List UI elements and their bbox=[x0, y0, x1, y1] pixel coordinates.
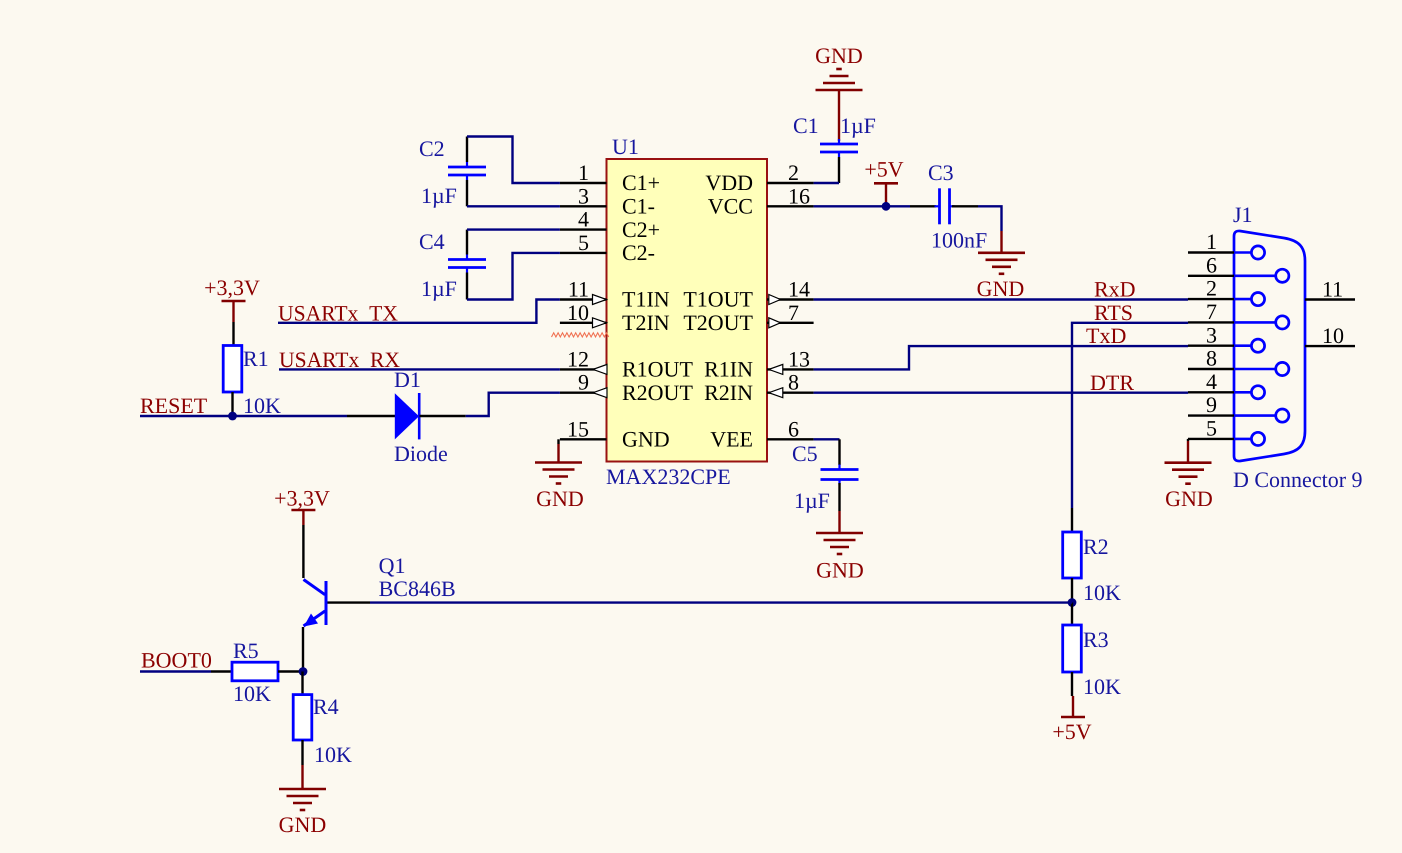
junction VCC/+5V bbox=[882, 202, 891, 211]
svg-text:10K: 10K bbox=[243, 393, 281, 418]
svg-text:DTR: DTR bbox=[1090, 370, 1134, 395]
svg-text:GND: GND bbox=[816, 558, 864, 583]
svg-text:4: 4 bbox=[578, 207, 589, 232]
svg-text:1µF: 1µF bbox=[840, 113, 876, 138]
svg-text:GND: GND bbox=[536, 486, 584, 511]
wire RxD net: U1 pin 14 to J1 pin 2 bbox=[814, 298, 1188, 300]
svg-text:R3: R3 bbox=[1083, 627, 1109, 652]
U1 pin 8 (R2IN) lead bbox=[767, 388, 814, 398]
J1 pin 10 lead bbox=[1305, 345, 1355, 347]
svg-text:D Connector 9: D Connector 9 bbox=[1233, 467, 1363, 492]
svg-text:1µF: 1µF bbox=[421, 276, 457, 301]
IC U1 MAX232CPE body bbox=[607, 159, 768, 462]
compile-error squiggle under pin 10 bbox=[552, 333, 609, 337]
J1 pin 5 lead and contact bbox=[1188, 432, 1265, 445]
J1 pin 1 lead and contact bbox=[1188, 246, 1265, 259]
svg-text:RESET: RESET bbox=[140, 393, 208, 418]
svg-text:12: 12 bbox=[567, 346, 589, 371]
svg-text:3: 3 bbox=[578, 183, 589, 208]
connector J1 body (D Connector 9) bbox=[1234, 231, 1305, 461]
U1 pin 7 (T2OUT) lead bbox=[767, 318, 814, 328]
svg-text:3: 3 bbox=[1206, 322, 1217, 347]
svg-text:13: 13 bbox=[788, 346, 810, 371]
J1 pin 2 lead and contact bbox=[1188, 293, 1265, 306]
svg-text:100nF: 100nF bbox=[931, 228, 987, 253]
wire BOOT0 to R5 bbox=[211, 670, 232, 672]
resistor R1 bbox=[223, 346, 242, 393]
capacitor C4 bbox=[448, 255, 486, 273]
J1 pin 3 lead and contact bbox=[1188, 339, 1265, 352]
U1 pin 13 (R1IN) lead bbox=[767, 364, 814, 374]
svg-text:6: 6 bbox=[788, 416, 799, 441]
U1 pin 14 (T1OUT) lead bbox=[767, 295, 814, 305]
wire C2 bottom to U1 pin 3 bbox=[467, 180, 560, 206]
wire RTS net: J1 pin 7 to R2 bbox=[1072, 323, 1188, 508]
svg-text:10: 10 bbox=[1322, 323, 1344, 348]
svg-text:1: 1 bbox=[1206, 229, 1217, 254]
svg-text:10K: 10K bbox=[1083, 580, 1121, 605]
svg-text:9: 9 bbox=[578, 370, 589, 395]
svg-text:R4: R4 bbox=[313, 694, 339, 719]
wire USARTx_RX to U1 pin 12 bbox=[279, 368, 560, 370]
U1 pin 4 (C2+) lead bbox=[560, 228, 607, 230]
svg-text:10: 10 bbox=[567, 300, 589, 325]
svg-text:1µF: 1µF bbox=[794, 488, 830, 513]
wire R4 bottom to GND bbox=[301, 740, 303, 765]
U1 pin 15 (GND) lead bbox=[560, 438, 607, 440]
svg-text:C4: C4 bbox=[419, 229, 445, 254]
svg-text:5: 5 bbox=[1206, 416, 1217, 441]
wire C3 right to GND bbox=[952, 206, 1002, 231]
ground symbol at J1 bbox=[1165, 441, 1212, 484]
svg-text:C1: C1 bbox=[793, 113, 819, 138]
svg-text:T1IN: T1IN bbox=[622, 287, 670, 312]
ground symbol at C5 bbox=[816, 511, 863, 554]
svg-text:10K: 10K bbox=[1083, 674, 1121, 699]
J1 pin 9 lead and contact bbox=[1188, 409, 1289, 422]
svg-text:VDD: VDD bbox=[705, 170, 753, 195]
svg-text:MAX232CPE: MAX232CPE bbox=[606, 464, 731, 489]
wire BOOT0 bbox=[140, 670, 211, 672]
U1 pin 11 (T1IN) lead bbox=[560, 295, 607, 305]
svg-text:2: 2 bbox=[1206, 276, 1217, 301]
wire junction to R3 top bbox=[1071, 603, 1073, 626]
wire R2 bottom to junction bbox=[1071, 578, 1073, 603]
svg-text:C2: C2 bbox=[419, 136, 445, 161]
capacitor C3 bbox=[935, 188, 955, 224]
svg-text:T1OUT: T1OUT bbox=[683, 287, 753, 312]
svg-text:C3: C3 bbox=[928, 160, 954, 185]
transistor Q1 (BC846B) symbol bbox=[304, 580, 327, 627]
wire C4 bottom to U1 pin 5 bbox=[467, 253, 560, 300]
svg-text:8: 8 bbox=[788, 370, 799, 395]
svg-text:R2IN: R2IN bbox=[704, 380, 753, 405]
J1 pin 6 lead and contact bbox=[1188, 269, 1289, 282]
wire DTR net: U1 pin 8 to J1 pin 4 bbox=[814, 392, 1188, 394]
svg-text:7: 7 bbox=[788, 300, 799, 325]
power port +3,3V above R1 bbox=[204, 275, 260, 322]
wire D1 cathode to U1 pin 9 R2OUT bbox=[420, 393, 560, 416]
wire U1 pin 6 to C5 bbox=[814, 439, 840, 465]
J1 pin 8 lead and contact bbox=[1188, 362, 1289, 375]
wire junction to R4 bbox=[301, 672, 303, 695]
svg-text:7: 7 bbox=[1206, 299, 1217, 324]
wire Q1 emitter to BOOT0 node bbox=[302, 627, 304, 672]
svg-text:5: 5 bbox=[578, 230, 589, 255]
U1 pin 3 (C1-) lead bbox=[560, 205, 607, 207]
svg-text:9: 9 bbox=[1206, 392, 1217, 417]
svg-text:GND: GND bbox=[279, 812, 327, 837]
svg-text:R1: R1 bbox=[243, 346, 269, 371]
svg-text:C5: C5 bbox=[792, 441, 818, 466]
J1 pin 11 lead bbox=[1305, 298, 1355, 300]
U1 pin 1 (C1+) lead bbox=[560, 182, 607, 184]
svg-text:+3,3V: +3,3V bbox=[204, 275, 260, 300]
svg-text:C2-: C2- bbox=[622, 240, 655, 265]
svg-text:T2OUT: T2OUT bbox=[683, 310, 753, 335]
wire R5 to junction bbox=[278, 670, 303, 672]
svg-text:C1+: C1+ bbox=[622, 170, 660, 195]
svg-text:T2IN: T2IN bbox=[622, 310, 670, 335]
diode D1 bbox=[395, 393, 419, 439]
ground symbol at R4 bbox=[279, 765, 326, 810]
svg-text:10K: 10K bbox=[314, 742, 352, 767]
U1 pin 12 (R1OUT) lead bbox=[560, 364, 607, 374]
power port +3,3V above Q1 bbox=[274, 486, 330, 526]
U1 pin 9 (R2OUT) lead bbox=[560, 388, 607, 398]
wire GND to C1 top bbox=[838, 90, 840, 141]
junction R2/R3/base bbox=[1068, 598, 1077, 607]
svg-text:GND: GND bbox=[815, 43, 863, 68]
svg-text:8: 8 bbox=[1206, 346, 1217, 371]
wire C4 top to U1 pin 4 bbox=[467, 230, 560, 255]
svg-text:TxD: TxD bbox=[1086, 323, 1126, 348]
power port GND above C1 bbox=[815, 43, 863, 90]
svg-text:+5V: +5V bbox=[1052, 719, 1091, 744]
capacitor C5 bbox=[821, 465, 859, 485]
resistor R3 bbox=[1063, 625, 1082, 672]
svg-text:1µF: 1µF bbox=[421, 183, 457, 208]
svg-text:R2: R2 bbox=[1083, 534, 1109, 559]
svg-text:R1IN: R1IN bbox=[704, 357, 753, 382]
svg-text:16: 16 bbox=[788, 183, 810, 208]
wire C2 top to U1 pin 1 bbox=[467, 137, 560, 184]
power port +5V at VCC bbox=[864, 157, 903, 207]
svg-text:11: 11 bbox=[568, 277, 589, 302]
junction Q1 emitter / R5 / R4 bbox=[299, 667, 308, 676]
svg-text:14: 14 bbox=[788, 277, 810, 302]
capacitor C2 bbox=[448, 162, 486, 180]
svg-text:R1OUT: R1OUT bbox=[622, 357, 693, 382]
resistor R2 bbox=[1063, 532, 1082, 578]
svg-text:C1-: C1- bbox=[622, 194, 655, 219]
svg-text:RTS: RTS bbox=[1094, 300, 1133, 325]
wire U1 pin 16 to +5V junction and C3 bbox=[814, 205, 936, 207]
ground symbol at C3 bbox=[978, 231, 1025, 274]
wire J1 pin 5 to GND bbox=[1187, 439, 1189, 441]
resistor R4 bbox=[293, 695, 312, 740]
wire RTS to R2 top bbox=[1071, 508, 1073, 532]
U1 pin 6 (VEE) lead bbox=[767, 438, 814, 440]
svg-text:J1: J1 bbox=[1233, 202, 1253, 227]
wire +3,3V to Q1 collector bbox=[302, 525, 304, 578]
U1 pin 16 (VCC) lead bbox=[767, 205, 814, 207]
svg-text:R5: R5 bbox=[233, 638, 259, 663]
svg-text:6: 6 bbox=[1206, 252, 1217, 277]
wire C5 bottom to GND bbox=[838, 483, 840, 511]
wire R3 bottom to +5V bbox=[1071, 672, 1073, 696]
wire R1 bottom to RESET net bbox=[231, 392, 233, 416]
svg-text:R2OUT: R2OUT bbox=[622, 380, 693, 405]
wire +3,3V to R1 bbox=[232, 322, 234, 346]
svg-text:Diode: Diode bbox=[394, 441, 448, 466]
ground symbol at U1 pin 15 bbox=[535, 444, 582, 484]
J1 pin 4 lead and contact bbox=[1188, 386, 1265, 399]
J1 pin 7 lead and contact bbox=[1188, 316, 1289, 329]
svg-text:10K: 10K bbox=[233, 681, 271, 706]
capacitor C1 bbox=[820, 139, 858, 157]
wire RESET to diode D1 anode bbox=[347, 415, 395, 417]
svg-text:GND: GND bbox=[977, 276, 1025, 301]
svg-text:4: 4 bbox=[1206, 369, 1217, 394]
svg-text:BC846B: BC846B bbox=[379, 576, 456, 601]
svg-text:RxD: RxD bbox=[1094, 277, 1136, 302]
svg-text:VCC: VCC bbox=[708, 194, 753, 219]
svg-text:GND: GND bbox=[622, 427, 670, 452]
wire USARTx_TX to U1 pin 11 bbox=[278, 300, 560, 323]
resistor R5 bbox=[232, 662, 278, 681]
wire C1 bottom to U1 pin 2 bbox=[814, 157, 839, 183]
svg-text:1: 1 bbox=[578, 160, 589, 185]
svg-text:+3,3V: +3,3V bbox=[274, 486, 330, 511]
wire U1 pin 15 to GND bbox=[557, 439, 559, 444]
svg-text:+5V: +5V bbox=[864, 157, 903, 182]
U1 pin 2 (VDD) lead bbox=[767, 182, 814, 184]
wire Q1 base to R2/R3 junction bbox=[328, 601, 1073, 603]
power port +5V below R3 bbox=[1052, 696, 1091, 744]
wire RESET bbox=[140, 415, 347, 417]
svg-text:VEE: VEE bbox=[710, 427, 753, 452]
U1 pin 5 (C2-) lead bbox=[560, 252, 607, 254]
svg-text:BOOT0: BOOT0 bbox=[141, 648, 212, 673]
wire TxD net: U1 pin 13 to J1 pin 3 bbox=[814, 346, 1188, 369]
svg-text:11: 11 bbox=[1322, 277, 1343, 302]
svg-text:U1: U1 bbox=[612, 134, 639, 159]
svg-text:GND: GND bbox=[1165, 486, 1213, 511]
svg-text:15: 15 bbox=[567, 416, 589, 441]
svg-text:2: 2 bbox=[788, 160, 799, 185]
U1 pin 10 (T2IN) lead bbox=[560, 318, 607, 328]
svg-text:C2+: C2+ bbox=[622, 217, 660, 242]
junction RESET/R1 bbox=[228, 412, 237, 421]
svg-text:Q1: Q1 bbox=[379, 553, 406, 578]
